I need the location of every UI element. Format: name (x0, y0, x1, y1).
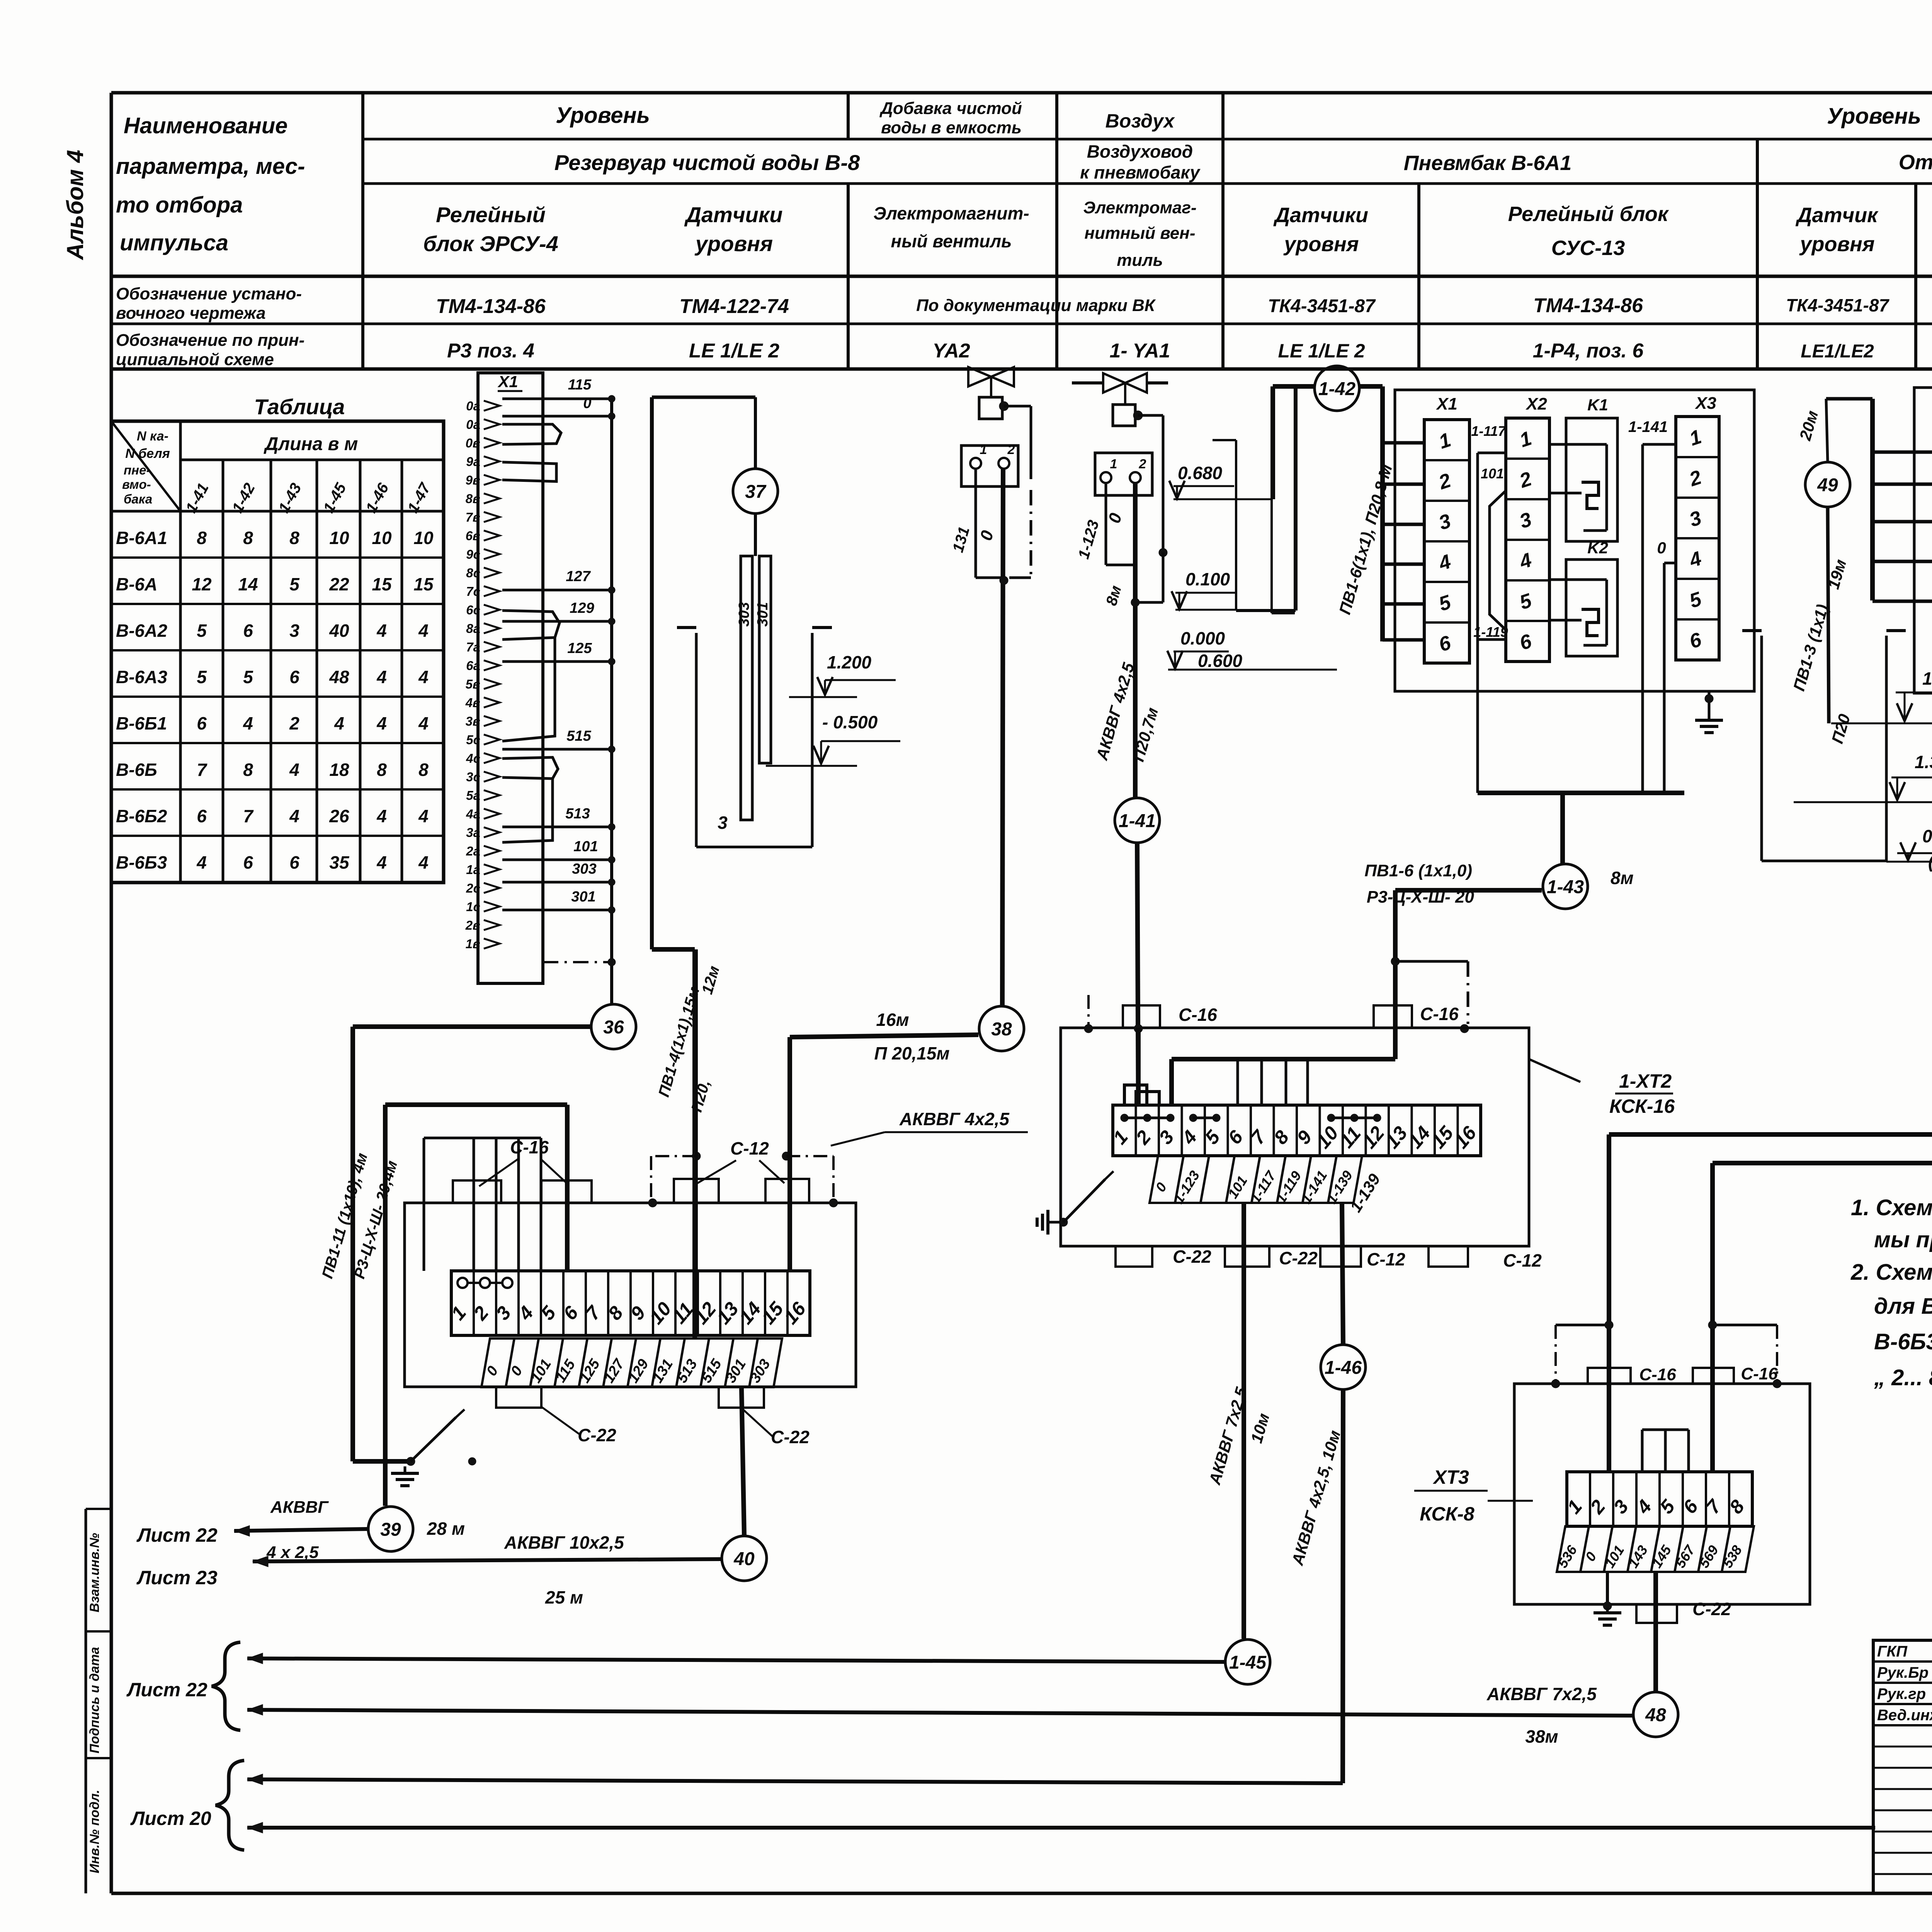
svg-text:1в: 1в (466, 937, 480, 951)
svg-text:4: 4 (334, 713, 344, 733)
svg-text:16м: 16м (876, 1010, 909, 1030)
svg-text:6: 6 (197, 806, 207, 826)
svg-text:X1: X1 (497, 372, 518, 391)
svg-text:301: 301 (571, 889, 595, 905)
svg-text:для В-6А1, для В-6А, В-6А2,: для В-6А1, для В-6А, В-6А2, В-6А3, В-6Б1… (1874, 1294, 1932, 1319)
XT3 terminal strip (1567, 1472, 1752, 1526)
svg-text:2с: 2с (466, 881, 480, 895)
svg-text:9а: 9а (466, 454, 480, 469)
svg-text:0.100: 0.100 (1185, 569, 1230, 589)
svg-text:513: 513 (565, 806, 590, 822)
svg-text:Обозначение по прин-: Обозначение по прин- (116, 331, 304, 350)
svg-text:В-6А2: В-6А2 (116, 621, 167, 641)
svg-text:1.700: 1.700 (1922, 668, 1932, 689)
stubs to X1 (1383, 441, 1424, 445)
svg-text:С-12: С-12 (1503, 1250, 1542, 1270)
svg-text:1-46: 1-46 (1325, 1357, 1362, 1378)
svg-text:129: 129 (570, 600, 594, 616)
svg-text:18: 18 (329, 760, 349, 780)
svg-text:48: 48 (329, 667, 349, 687)
XT1 C-22 tabs (496, 1387, 541, 1408)
svg-text:Датчик: Датчик (1796, 204, 1879, 227)
svg-text:С-12: С-12 (1367, 1249, 1405, 1269)
XT1 C-16 tabs (453, 1180, 501, 1203)
svg-text:Наименование: Наименование (124, 113, 287, 138)
XT1 C-12 tabs (674, 1179, 719, 1203)
wire 0 (502, 415, 612, 418)
cable marker 49 (1805, 462, 1850, 507)
bottom bus (1478, 791, 1684, 795)
svg-text:YA2: YA2 (932, 340, 970, 362)
block label leader (1529, 1059, 1580, 1082)
svg-text:101: 101 (1481, 466, 1504, 481)
svg-text:515: 515 (566, 728, 591, 744)
level sensor group 37 (652, 396, 755, 399)
cable marker 36 (591, 1004, 636, 1049)
XT1 ground (406, 1457, 415, 1466)
wire to 1-46 (1342, 1203, 1343, 1345)
svg-text:5: 5 (197, 667, 207, 687)
svg-text:СУС-13: СУС-13 (1551, 236, 1625, 260)
valve 1-YA1 (1072, 381, 1103, 384)
svg-text:блок ЭРСУ-4: блок ЭРСУ-4 (423, 231, 558, 256)
svg-text:1-45: 1-45 (1229, 1652, 1267, 1673)
svg-text:8: 8 (197, 528, 207, 548)
svg-text:8м: 8м (1611, 868, 1634, 888)
svg-text:С-16: С-16 (1420, 1004, 1459, 1024)
svg-text:26: 26 (329, 806, 349, 826)
svg-text:мы принципиальной лист АТХ-1: мы принципиальной лист АТХ-13. (1874, 1227, 1932, 1252)
svg-text:Взам.инв.№: Взам.инв.№ (87, 1533, 102, 1612)
wire 115 (502, 398, 612, 400)
svg-text:Отстойник В-11А: Отстойник В-11А (1899, 151, 1932, 174)
svg-text:38м: 38м (1525, 1726, 1558, 1747)
svg-text:По документации марки ВК: По документации марки ВК (916, 296, 1156, 315)
signature table (1873, 1640, 1932, 1893)
svg-text:K1: K1 (1587, 396, 1608, 414)
svg-text:С-16: С-16 (1639, 1365, 1676, 1384)
svg-text:ТМ4-134-86: ТМ4-134-86 (1533, 294, 1643, 317)
shield dash-dots XT1 (650, 1156, 652, 1201)
svg-text:тиль: тиль (1117, 251, 1163, 270)
svg-text:15: 15 (413, 574, 434, 594)
wire 301 (502, 909, 612, 912)
svg-text:Длина в м: Длина в м (264, 434, 358, 454)
svg-text:- 0.500: - 0.500 (822, 712, 878, 732)
svg-text:25 м: 25 м (545, 1587, 583, 1607)
svg-text:8: 8 (377, 760, 387, 780)
wire to 48 (1653, 1572, 1658, 1692)
svg-text:3: 3 (289, 621, 299, 641)
svg-text:39: 39 (380, 1519, 401, 1540)
cable marker 1-43 (1543, 864, 1588, 909)
svg-text:ТК4-3451-87: ТК4-3451-87 (1268, 296, 1376, 316)
svg-text:ХТ3: ХТ3 (1432, 1466, 1469, 1488)
shield dash-dot (543, 961, 612, 963)
svg-text:ТК4-3451-87: ТК4-3451-87 (1786, 295, 1890, 315)
svg-text:С-12: С-12 (730, 1138, 769, 1158)
svg-text:Датчики: Датчики (1273, 204, 1368, 227)
svg-text:125: 125 (567, 640, 592, 656)
svg-text:5: 5 (197, 621, 207, 641)
svg-text:N беля: N беля (125, 446, 170, 461)
svg-text:ПВ1-6 (1х1,0): ПВ1-6 (1х1,0) (1364, 861, 1472, 880)
svg-text:пне-: пне- (124, 463, 150, 477)
svg-text:49: 49 (1817, 475, 1838, 495)
svg-text:0.000: 0.000 (1180, 628, 1225, 648)
XT2 bottom tabs (1116, 1246, 1152, 1267)
svg-text:Воздух: Воздух (1105, 110, 1175, 132)
connector strip X1 (478, 373, 543, 983)
svg-text:Уровень: Уровень (556, 103, 650, 128)
svg-text:LE 1/LE 2: LE 1/LE 2 (689, 340, 779, 362)
XT2 lower cells (1150, 1156, 1184, 1203)
XT1 enclosure (405, 1203, 856, 1387)
svg-text:В-6А1: В-6А1 (116, 528, 167, 548)
svg-text:3а: 3а (466, 825, 480, 840)
svg-text:4: 4 (376, 621, 387, 641)
svg-text:6: 6 (289, 852, 299, 872)
wire 303 (502, 881, 612, 884)
cable 16m to 38 (790, 1035, 978, 1037)
svg-text:воды в емкость: воды в емкость (881, 118, 1022, 137)
svg-text:4: 4 (289, 760, 299, 780)
ground B-6A1 (1708, 691, 1711, 707)
svg-text:14: 14 (238, 574, 258, 594)
svg-text:уровня: уровня (1283, 233, 1359, 256)
svg-text:уровня: уровня (1799, 233, 1874, 256)
cable marker 1-45 (1225, 1639, 1270, 1684)
XT2 terminal strip (1113, 1105, 1481, 1156)
svg-text:Обозначение устано-: Обозначение устано- (116, 284, 302, 303)
svg-text:7: 7 (243, 806, 254, 826)
svg-text:4: 4 (418, 806, 429, 826)
svg-text:2в: 2в (465, 918, 480, 932)
svg-text:0в: 0в (466, 436, 480, 450)
svg-text:LE 1/LE 2: LE 1/LE 2 (1278, 340, 1365, 362)
svg-text:С-16: С-16 (510, 1137, 549, 1157)
svg-text:8а: 8а (466, 621, 480, 636)
svg-text:10: 10 (372, 528, 392, 548)
svg-text:АКВВГ 10х2,5: АКВВГ 10х2,5 (504, 1532, 624, 1553)
solenoid YA2 (979, 397, 1002, 419)
solenoid 1-YA1 (1113, 405, 1135, 426)
svg-text:2: 2 (1007, 442, 1015, 457)
svg-text:1-42: 1-42 (1318, 379, 1355, 399)
svg-text:6в: 6в (466, 529, 480, 543)
svg-text:1: 1 (980, 442, 987, 457)
svg-text:4а: 4а (466, 807, 480, 821)
svg-text:15: 15 (372, 574, 392, 594)
svg-text:С-16: С-16 (1179, 1005, 1217, 1025)
svg-text:301: 301 (755, 602, 771, 626)
svg-text:4: 4 (418, 852, 429, 872)
wire 515 (502, 748, 612, 751)
svg-text:Добавка чистой: Добавка чистой (879, 99, 1022, 118)
wire bus (610, 399, 613, 1003)
stubs to X1 (1872, 451, 1932, 454)
svg-text:5: 5 (243, 667, 253, 687)
wire 513 (502, 826, 612, 828)
sheet frame (111, 91, 1932, 95)
svg-text:АКВВГ 4х2,5: АКВВГ 4х2,5 (899, 1109, 1010, 1129)
riser PV1-6 (1380, 386, 1385, 641)
svg-text:П 20,15м: П 20,15м (874, 1043, 949, 1063)
svg-text:В-6Б3: В-6Б3 (116, 852, 167, 872)
svg-text:8с: 8с (466, 566, 480, 580)
svg-text:37: 37 (745, 481, 767, 502)
svg-text:10: 10 (413, 528, 434, 548)
svg-text:Уровень: Уровень (1827, 104, 1921, 129)
wire to 40 (742, 1388, 744, 1535)
cable marker 1-41 (1115, 798, 1160, 843)
svg-text:7: 7 (197, 760, 207, 780)
left margin strip (85, 1509, 87, 1893)
svg-text:4: 4 (376, 713, 387, 733)
svg-text:9в: 9в (466, 473, 480, 487)
svg-text:Лист 22: Лист 22 (126, 1679, 207, 1701)
wire to 39 (468, 1458, 476, 1465)
svg-text:303: 303 (572, 861, 596, 877)
electrode 303 (741, 556, 752, 820)
svg-text:10: 10 (329, 528, 349, 548)
relay block B-6A1 enclosure (1395, 390, 1754, 691)
svg-text:8: 8 (243, 760, 253, 780)
svg-text:1.300: 1.300 (1915, 752, 1932, 772)
svg-text:4: 4 (376, 667, 387, 687)
wires 1-YA1 (1105, 483, 1107, 565)
svg-text:то отбора: то отбора (116, 192, 243, 218)
svg-text:7с: 7с (466, 584, 480, 599)
XT3 C-22 tab (1636, 1604, 1677, 1623)
svg-text:2а: 2а (466, 844, 480, 858)
svg-text:2: 2 (289, 713, 299, 733)
svg-text:48: 48 (1645, 1705, 1666, 1725)
svg-text:4: 4 (418, 621, 429, 641)
svg-text:Релейный блок: Релейный блок (1508, 202, 1669, 226)
svg-text:0.000: 0.000 (1922, 826, 1932, 846)
svg-text:Релейный: Релейный (436, 202, 546, 227)
svg-text:ТМ4-122-74: ТМ4-122-74 (679, 295, 789, 318)
XT3 enclosure (1514, 1384, 1810, 1604)
valve YA2 (968, 367, 1014, 386)
svg-text:40: 40 (329, 621, 349, 641)
svg-text:7а: 7а (466, 640, 480, 654)
svg-text:ный вентиль: ный вентиль (891, 231, 1012, 251)
svg-text:5а: 5а (466, 788, 480, 803)
svg-text:303: 303 (736, 602, 752, 626)
svg-text:3в: 3в (466, 714, 480, 728)
XT1 feed wires (385, 1102, 567, 1107)
svg-text:АКВВГ: АКВВГ (270, 1498, 329, 1517)
svg-text:уровня: уровня (694, 231, 773, 256)
svg-text:параметра, мес-: параметра, мес- (116, 154, 305, 179)
svg-text:1-119: 1-119 (1473, 624, 1508, 640)
svg-text:1-141: 1-141 (1628, 418, 1668, 435)
svg-text:0: 0 (1657, 539, 1666, 557)
svg-text:X2: X2 (1525, 395, 1547, 413)
svg-text:0.600: 0.600 (1198, 651, 1243, 671)
svg-text:6с: 6с (466, 603, 480, 617)
svg-text:Лист 22: Лист 22 (136, 1524, 218, 1546)
svg-text:Пневмбак В-6А1: Пневмбак В-6А1 (1404, 151, 1572, 175)
svg-text:Подпись и дата: Подпись и дата (87, 1647, 102, 1753)
svg-text:5с: 5с (466, 733, 480, 747)
svg-text:2: 2 (1139, 457, 1146, 471)
svg-text:LE1/LE2: LE1/LE2 (1801, 341, 1874, 362)
svg-text:115: 115 (568, 377, 592, 393)
svg-text:1-Р4, поз. 6: 1-Р4, поз. 6 (1533, 340, 1644, 362)
junction box 1-YA1 (1095, 453, 1152, 495)
junction box YA2 (961, 446, 1018, 486)
svg-text:Альбом 4: Альбом 4 (62, 150, 88, 261)
svg-text:С-22: С-22 (578, 1425, 616, 1445)
svg-text:1.200: 1.200 (827, 652, 872, 672)
svg-text:8: 8 (243, 528, 253, 548)
svg-text:2. Схема подключений для пн: 2. Схема подключений для пневмобака выпо… (1850, 1260, 1932, 1285)
svg-text:4в: 4в (465, 696, 480, 710)
svg-text:ТМ4-134-86: ТМ4-134-86 (436, 295, 546, 318)
svg-text:0а: 0а (466, 417, 480, 432)
top parameter table (361, 93, 364, 369)
svg-text:Электромагнит-: Электромагнит- (873, 203, 1029, 223)
tank B-11A (1760, 636, 1763, 861)
svg-text:4: 4 (196, 852, 207, 872)
svg-text:Лист 23: Лист 23 (136, 1567, 218, 1588)
svg-text:N ка-: N ка- (137, 429, 168, 444)
svg-text:0.680: 0.680 (1178, 463, 1223, 483)
svg-text:8в: 8в (466, 492, 480, 506)
XT1 terminal strip (451, 1271, 810, 1335)
svg-text:1-ХТ2: 1-ХТ2 (1619, 1070, 1672, 1092)
svg-text:1с: 1с (466, 900, 480, 914)
svg-text:Датчики: Датчики (684, 202, 783, 227)
level reference lines (1235, 440, 1237, 610)
svg-text:4: 4 (418, 667, 429, 687)
svg-text:3: 3 (718, 813, 728, 833)
svg-text:28 м: 28 м (427, 1519, 465, 1539)
svg-text:Лист 20: Лист 20 (130, 1808, 211, 1829)
svg-text:С-22: С-22 (1173, 1247, 1211, 1267)
svg-text:Таблица: Таблица (254, 395, 345, 419)
electrode 301 (759, 556, 771, 763)
wire 125 (502, 660, 612, 663)
cable marker 1-42 (1315, 366, 1359, 411)
svg-text:6а: 6а (466, 658, 480, 673)
XT2 enclosure (1061, 1028, 1529, 1246)
svg-text:38: 38 (991, 1019, 1012, 1039)
svg-text:нитный вен-: нитный вен- (1084, 224, 1195, 243)
svg-text:1-43: 1-43 (1547, 877, 1584, 897)
svg-text:Рук.гр: Рук.гр (1877, 1685, 1926, 1702)
svg-text:12: 12 (192, 574, 212, 594)
svg-text:6: 6 (197, 713, 207, 733)
svg-text:Рук.Бр: Рук.Бр (1877, 1664, 1929, 1681)
svg-text:4: 4 (418, 713, 429, 733)
svg-text:22: 22 (329, 574, 349, 594)
svg-text:1. Схема подключений выполне: 1. Схема подключений выполнена на основа… (1851, 1195, 1932, 1220)
svg-text:вочного чертежа: вочного чертежа (116, 304, 266, 323)
svg-text:5в: 5в (466, 677, 480, 691)
svg-text:Инв.№ подл.: Инв.№ подл. (87, 1790, 102, 1874)
svg-text:127: 127 (566, 568, 591, 585)
svg-text:X1: X1 (1435, 395, 1458, 413)
svg-text:9с: 9с (466, 547, 480, 561)
wire 129 (502, 620, 612, 623)
svg-text:101: 101 (573, 838, 598, 855)
XT1 lower cells (481, 1338, 514, 1387)
svg-text:С-16: С-16 (1741, 1364, 1778, 1383)
inner hooks (1642, 1429, 1689, 1431)
svg-text:4: 4 (376, 852, 387, 872)
svg-text:Воздуховод: Воздуховод (1087, 141, 1193, 162)
relay block B-11A enclosure (1914, 388, 1932, 693)
shield dash-dot left (1087, 995, 1090, 1026)
XT2 top hooks (1124, 1085, 1159, 1105)
svg-text:В-6Б: В-6Б (116, 760, 157, 780)
svg-text:С-22: С-22 (1692, 1599, 1731, 1619)
svg-text:0: 0 (583, 395, 591, 412)
cable marker 48 (1633, 1692, 1678, 1737)
svg-text:импульса: импульса (120, 230, 228, 255)
XT3 ground (1606, 1572, 1609, 1607)
svg-text:ципиальной схеме: ципиальной схеме (116, 350, 274, 369)
svg-text:„ 2... 8.“: „ 2... 8.“ (1874, 1365, 1932, 1390)
svg-text:8: 8 (289, 528, 299, 548)
svg-text:С-22: С-22 (771, 1427, 810, 1447)
svg-text:Р3 поз. 4: Р3 поз. 4 (447, 340, 534, 362)
svg-text:1-117: 1-117 (1471, 423, 1506, 439)
svg-text:4: 4 (289, 806, 299, 826)
X1 pins (484, 401, 500, 411)
svg-text:1- YA1: 1- YA1 (1109, 340, 1170, 362)
svg-text:Резервуар чистой воды В-8: Резервуар чистой воды В-8 (554, 150, 860, 175)
svg-text:7в: 7в (466, 510, 480, 524)
svg-text:Электромаг-: Электромаг- (1083, 198, 1196, 217)
svg-text:4 х 2,5: 4 х 2,5 (266, 1543, 319, 1562)
svg-text:K2: K2 (1587, 539, 1608, 557)
svg-text:6: 6 (243, 621, 253, 641)
cable PV1-4 (652, 947, 695, 952)
tank B-8 (695, 633, 698, 847)
svg-text:6: 6 (243, 852, 253, 872)
svg-text:В-6А3: В-6А3 (116, 667, 167, 687)
svg-text:КСК-8: КСК-8 (1420, 1503, 1475, 1525)
svg-text:С-22: С-22 (1279, 1248, 1318, 1268)
svg-text:4: 4 (243, 713, 253, 733)
svg-text:В-6Б3 она аналогична с зам: В-6Б3 она аналогична с заменой индекса „… (1874, 1329, 1932, 1354)
svg-text:АКВВГ 7х2,5: АКВВГ 7х2,5 (1486, 1684, 1597, 1704)
svg-text:35: 35 (329, 852, 350, 872)
svg-text:1а: 1а (466, 862, 480, 877)
svg-text:В-6Б2: В-6Б2 (116, 806, 167, 826)
svg-text:40: 40 (733, 1549, 755, 1569)
svg-text:4: 4 (376, 806, 387, 826)
svg-text:вмо-: вмо- (122, 477, 151, 492)
feed wires XT2 (1136, 1028, 1141, 1105)
svg-text:1-41: 1-41 (1119, 811, 1156, 831)
XT3 feed wires (1607, 1134, 1611, 1472)
svg-text:В-6А: В-6А (116, 574, 157, 594)
cable marker 1-46 (1321, 1345, 1366, 1389)
svg-text:1: 1 (1110, 457, 1117, 471)
wire 101 (502, 859, 612, 861)
svg-text:Вед.инж: Вед.инж (1877, 1707, 1932, 1724)
svg-text:4с: 4с (466, 751, 480, 765)
XT2 C-16 tabs (1123, 1005, 1160, 1028)
svg-text:8: 8 (418, 760, 429, 780)
svg-text:ГКП: ГКП (1877, 1643, 1908, 1660)
